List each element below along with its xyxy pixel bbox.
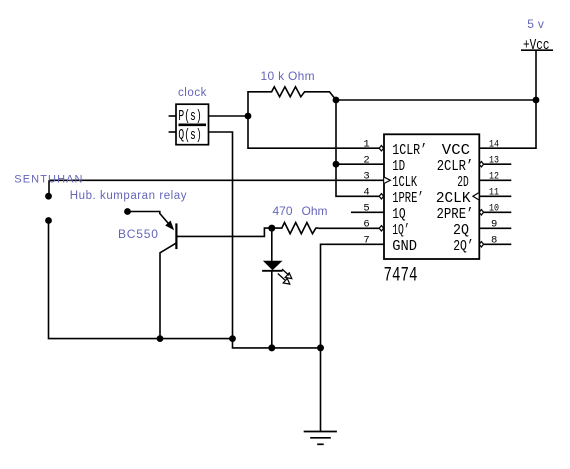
touch contact dot E1: [45, 193, 52, 200]
svg-text:P(s): P(s): [178, 109, 201, 125]
pin 13 stub wire 2CLR': [484, 163, 512, 165]
ground symbol: [304, 432, 337, 445]
node B junction dot: [333, 97, 340, 104]
svg-text:2PRE’: 2PRE’: [437, 206, 474, 223]
pin 8 inversion diamond: [479, 242, 483, 247]
wire R2 to pin 6 1Q': [318, 227, 379, 229]
svg-text:2: 2: [363, 154, 369, 166]
svg-text:14: 14: [489, 138, 499, 150]
wire node D to pin 2 1D: [336, 163, 384, 165]
svg-text:10: 10: [489, 202, 499, 214]
pin numbers left: [363, 138, 369, 246]
wire top rail node B to node C: [336, 99, 536, 101]
svg-text:2Q’: 2Q’: [453, 238, 474, 255]
svg-text:Hub. kumparan relay: Hub. kumparan relay: [70, 190, 187, 202]
svg-text:2D: 2D: [457, 174, 469, 191]
node G dot rail meets Q wire: [229, 335, 236, 342]
node I dot LED meets rail: [268, 344, 275, 351]
pin 10 inversion diamond: [479, 210, 483, 215]
wire node B down to pin 4 1PRE': [336, 100, 380, 196]
svg-text:GND: GND: [392, 238, 417, 255]
wire E2 down to bottom rail: [49, 221, 233, 339]
pin numbers right: [489, 138, 499, 246]
wire node J to ground: [320, 348, 322, 432]
svg-text:3: 3: [363, 170, 369, 182]
svg-text:2CLK: 2CLK: [436, 190, 471, 207]
wire node C to pin 14 VCC: [479, 100, 536, 148]
pin 4 inversion diamond: [379, 194, 383, 199]
node J dot ground junction: [317, 344, 324, 351]
IC U1 right pin labels: [436, 142, 474, 255]
pin 11 clock arrow: [473, 193, 479, 200]
svg-text:9: 9: [491, 218, 497, 230]
svg-text:BC550: BC550: [118, 227, 159, 241]
touch contact stub: [48, 180, 50, 194]
svg-text:+Vcc: +Vcc: [523, 38, 550, 54]
svg-text:1: 1: [363, 138, 369, 150]
svg-text:5: 5: [363, 202, 369, 214]
pin 12 stub wire 2D: [479, 179, 511, 181]
wire terminal to Q1 emitter: [128, 212, 171, 227]
node F junction dot: [268, 225, 275, 232]
svg-text:6: 6: [363, 218, 369, 230]
touch contact dot E2: [45, 217, 52, 224]
LED D1: [262, 228, 292, 348]
svg-text:8: 8: [491, 234, 497, 246]
pin 3 clock arrow: [384, 177, 390, 183]
relay coil terminal dot: [124, 208, 131, 215]
node H dot emitter meets rail: [157, 335, 164, 342]
svg-text:VCC: VCC: [442, 142, 470, 159]
wire node A down to pin 1 1CLR': [248, 116, 380, 148]
power +Vcc symbol: [521, 50, 553, 100]
pin 6 inversion diamond: [379, 226, 383, 231]
clock source block P(s)/Q(s): [169, 104, 209, 145]
node C junction dot: [533, 97, 540, 104]
pin 13 inversion diamond: [479, 162, 483, 167]
svg-text:2CLR’: 2CLR’: [437, 158, 474, 175]
svg-text:7474: 7474: [384, 264, 418, 287]
wire P(s) output to node A: [209, 115, 249, 117]
svg-text:Q(s): Q(s): [178, 128, 201, 144]
label: 470 Ohm: [273, 204, 328, 218]
svg-text:13: 13: [489, 154, 499, 166]
pin 11 stub wire 2CLK: [479, 195, 511, 197]
svg-text:Ohm: Ohm: [302, 204, 328, 218]
wire Q1 base to node F: [176, 228, 271, 236]
IC U1 7474 body: [384, 134, 479, 259]
pin 1 inversion diamond: [379, 146, 383, 151]
resistor R2 470 Ohm: [272, 223, 319, 234]
svg-text:12: 12: [489, 170, 499, 182]
svg-text:5 v: 5 v: [527, 17, 544, 31]
svg-text:1Q: 1Q: [392, 206, 406, 223]
svg-text:470: 470: [273, 204, 293, 218]
pin 5 stub wire 1Q: [351, 211, 384, 213]
pin 8 stub wire 2Q': [484, 243, 512, 245]
wire rail step down segment: [233, 339, 321, 348]
pin 10 stub wire 2PRE': [484, 211, 512, 213]
svg-text:1PRE’: 1PRE’: [392, 190, 424, 207]
svg-text:1CLR’: 1CLR’: [392, 142, 427, 159]
wire SENTUHAN to pin 3 1CLK: [49, 179, 384, 181]
svg-text:clock: clock: [178, 87, 207, 99]
wire Q1 collector to bottom rail: [160, 243, 176, 339]
IC U1 left pin labels: [392, 142, 427, 255]
node A junction dot: [245, 113, 252, 120]
svg-text:1CLK: 1CLK: [392, 174, 417, 191]
transistor Q1 BC550: [166, 221, 177, 249]
svg-text:7: 7: [363, 234, 369, 246]
svg-text:1Q’: 1Q’: [392, 222, 410, 239]
svg-text:1D: 1D: [392, 158, 405, 175]
svg-text:11: 11: [489, 186, 499, 198]
svg-text:10 k Ohm: 10 k Ohm: [261, 69, 315, 83]
wire Q(s) output down to rail: [209, 132, 233, 339]
resistor R1 10 k Ohm: [248, 87, 336, 116]
svg-text:4: 4: [363, 186, 369, 198]
svg-text:2Q: 2Q: [453, 222, 469, 239]
pin 9 stub wire 2Q: [479, 227, 511, 229]
node D junction dot pin 2: [333, 161, 340, 168]
wire pin 7 GND to rail: [321, 244, 384, 348]
